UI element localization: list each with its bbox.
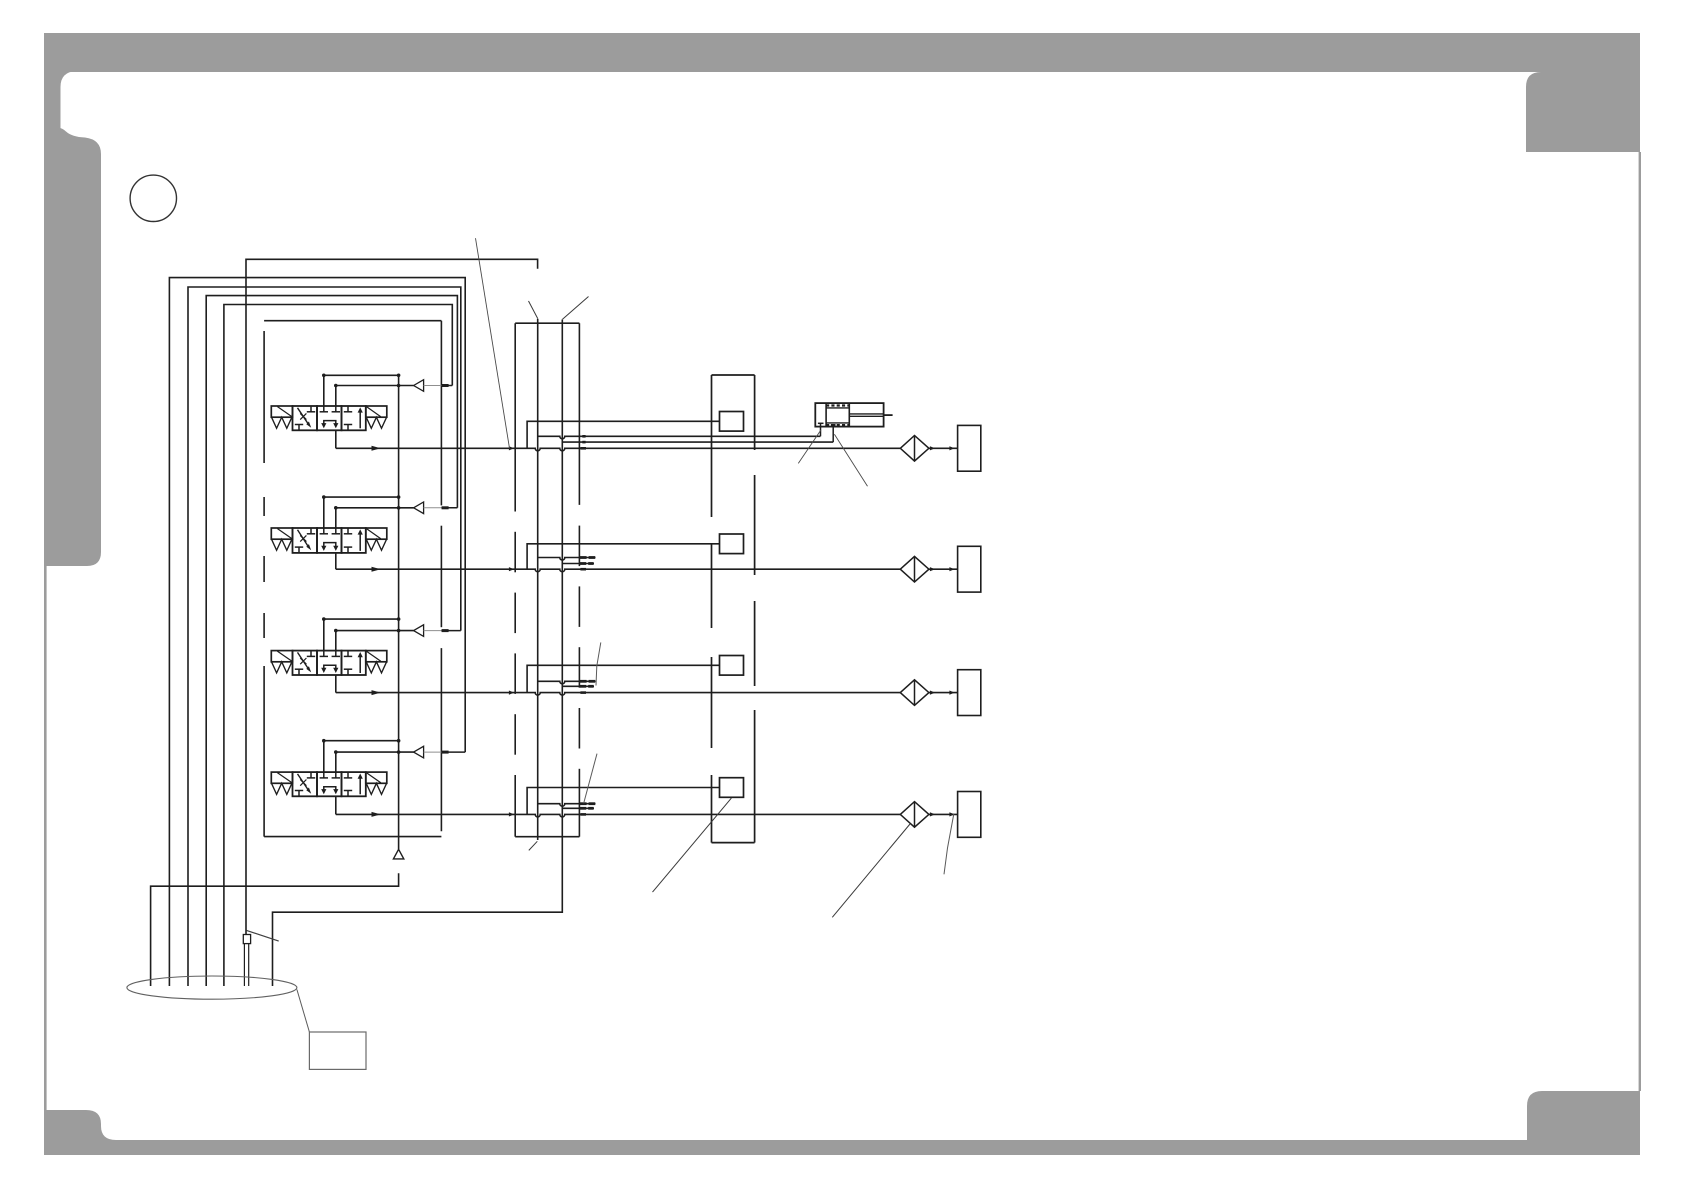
wire stub line B of V2	[562, 563, 594, 565]
frame right thin line	[1639, 152, 1641, 1091]
frame top-right block	[1526, 72, 1640, 152]
wire branch to junction box of V1	[527, 421, 719, 448]
cylinder port B stub	[831, 424, 836, 427]
leader to manifold line a	[529, 301, 538, 319]
wire pilot feed jog of V3	[424, 630, 442, 632]
leader diamond row4	[832, 824, 910, 917]
flow meter diamond of V4	[900, 802, 929, 828]
junction box port square of V1	[720, 412, 744, 432]
junction box	[712, 374, 755, 376]
wire diamond to nozzle of V3	[929, 692, 958, 694]
leader row4 couplers	[584, 754, 597, 804]
wire supply stub to manifold	[246, 259, 538, 934]
wire output of V4 with arrow	[335, 796, 337, 814]
wire cylinder line B row1	[562, 441, 833, 443]
wire branch to junction box of V3	[527, 665, 719, 692]
exhaust check triangle of V2	[414, 502, 424, 514]
wire stub line B of V3	[562, 685, 594, 687]
wire pilot b of V4	[335, 752, 337, 772]
revision circle	[130, 175, 176, 221]
pump box	[309, 1032, 366, 1069]
wire stub line A of V4	[538, 804, 596, 807]
valve V4 4/3 directional control valve	[271, 772, 387, 796]
wire diamond to nozzle of V2	[929, 568, 958, 570]
wire pilot b of V2	[335, 508, 337, 528]
wire diamond to nozzle of V1	[929, 447, 958, 449]
wire pilot supply C1 (row4)	[169, 278, 465, 986]
exhaust check triangle of V4	[414, 746, 424, 758]
wire pilot supply C3 (row2)	[206, 296, 457, 986]
wire output of V1 with arrow	[335, 430, 337, 448]
wire reservoir to pump box	[297, 990, 310, 1033]
manifold vertical P2	[537, 319, 539, 840]
wire stub line B of V4	[562, 807, 594, 809]
flow meter diamond of V1	[900, 436, 929, 462]
wire output of V3 with arrow	[335, 675, 337, 693]
reservoir ellipse	[127, 976, 297, 999]
flow meter diamond of V2	[900, 556, 929, 582]
nozzle block of V2	[958, 546, 981, 592]
leader junction box	[653, 798, 732, 892]
manifold vertical P3 (broken line)	[578, 323, 580, 505]
manifold header top	[515, 322, 579, 324]
exhaust silencer triangle bottom	[393, 849, 403, 859]
junction box port square of V4	[720, 778, 744, 798]
leader row3 couplers	[596, 642, 601, 685]
frame left thin line	[44, 566, 47, 1114]
leader suction tube	[247, 930, 279, 941]
exhaust check triangle of V3	[414, 625, 424, 637]
cylinder port A stub	[818, 422, 824, 424]
wire pilot a of V2	[323, 497, 325, 528]
flow meter diamond of V3	[900, 680, 929, 706]
leader nozzle row4	[944, 814, 954, 874]
wire stub line A of V2	[538, 558, 596, 561]
leader long to work line	[476, 238, 510, 448]
wire common pilot exhaust vertical	[398, 375, 400, 849]
wire branch to junction box of V2	[527, 544, 719, 569]
valve V3 4/3 directional control valve	[271, 651, 387, 675]
leader to manifold line b	[563, 297, 589, 320]
valve V2 4/3 directional control valve	[271, 528, 387, 553]
wire pilot a of V1	[323, 375, 325, 406]
exhaust check triangle of V1	[414, 380, 424, 392]
wire pilot a of V3	[323, 619, 325, 651]
leader cylinder b	[834, 434, 867, 486]
wire stub line A of V3	[538, 681, 596, 684]
manifold header bottom	[515, 836, 579, 838]
wire work line of V4	[336, 814, 901, 817]
suction tube	[243, 935, 250, 944]
wire cylinder line A row1	[538, 436, 821, 439]
wire output of V2 with arrow	[335, 553, 337, 569]
wire pilot b of V1	[335, 386, 337, 407]
frame left wide bar	[44, 126, 101, 566]
wire work line of V3	[336, 693, 901, 696]
manifold vertical return R	[273, 320, 563, 987]
frame top bar	[44, 33, 1640, 72]
junction box port square of V2	[720, 534, 744, 554]
nozzle block of V1	[958, 425, 981, 471]
leader cylinder a	[798, 430, 821, 463]
frame bottom bar + corner blocks	[44, 1091, 1640, 1155]
wire exhaust collector to tank	[151, 873, 399, 986]
enclosure box around valve bank	[263, 331, 265, 837]
nozzle block of V3	[958, 670, 981, 716]
nozzle block of V4	[958, 792, 981, 838]
wire pilot supply C4 (row1)	[224, 305, 452, 987]
cylinder (air blow actuator) row1	[815, 403, 892, 427]
wire pilot feed jog of V4	[424, 751, 442, 753]
valve V1 4/3 directional control valve	[271, 406, 387, 430]
wire pilot supply C2 (row3)	[188, 287, 461, 986]
wire pilot a of V4	[323, 741, 325, 772]
wire branch to junction box of V4	[527, 788, 719, 815]
wire work line of V2	[336, 569, 901, 572]
wire diamond to nozzle of V4	[929, 813, 958, 815]
wire pilot feed jog of V1	[424, 385, 442, 387]
junction box port square of V3	[720, 656, 744, 676]
wire pilot feed jog of V2	[424, 507, 442, 509]
leader small at manifold bottom	[529, 841, 538, 850]
manifold vertical P1 (broken line)	[514, 323, 516, 511]
wire pilot b of V3	[335, 631, 337, 651]
wire work line of V1	[336, 448, 901, 451]
frame left upper strip	[44, 71, 76, 128]
